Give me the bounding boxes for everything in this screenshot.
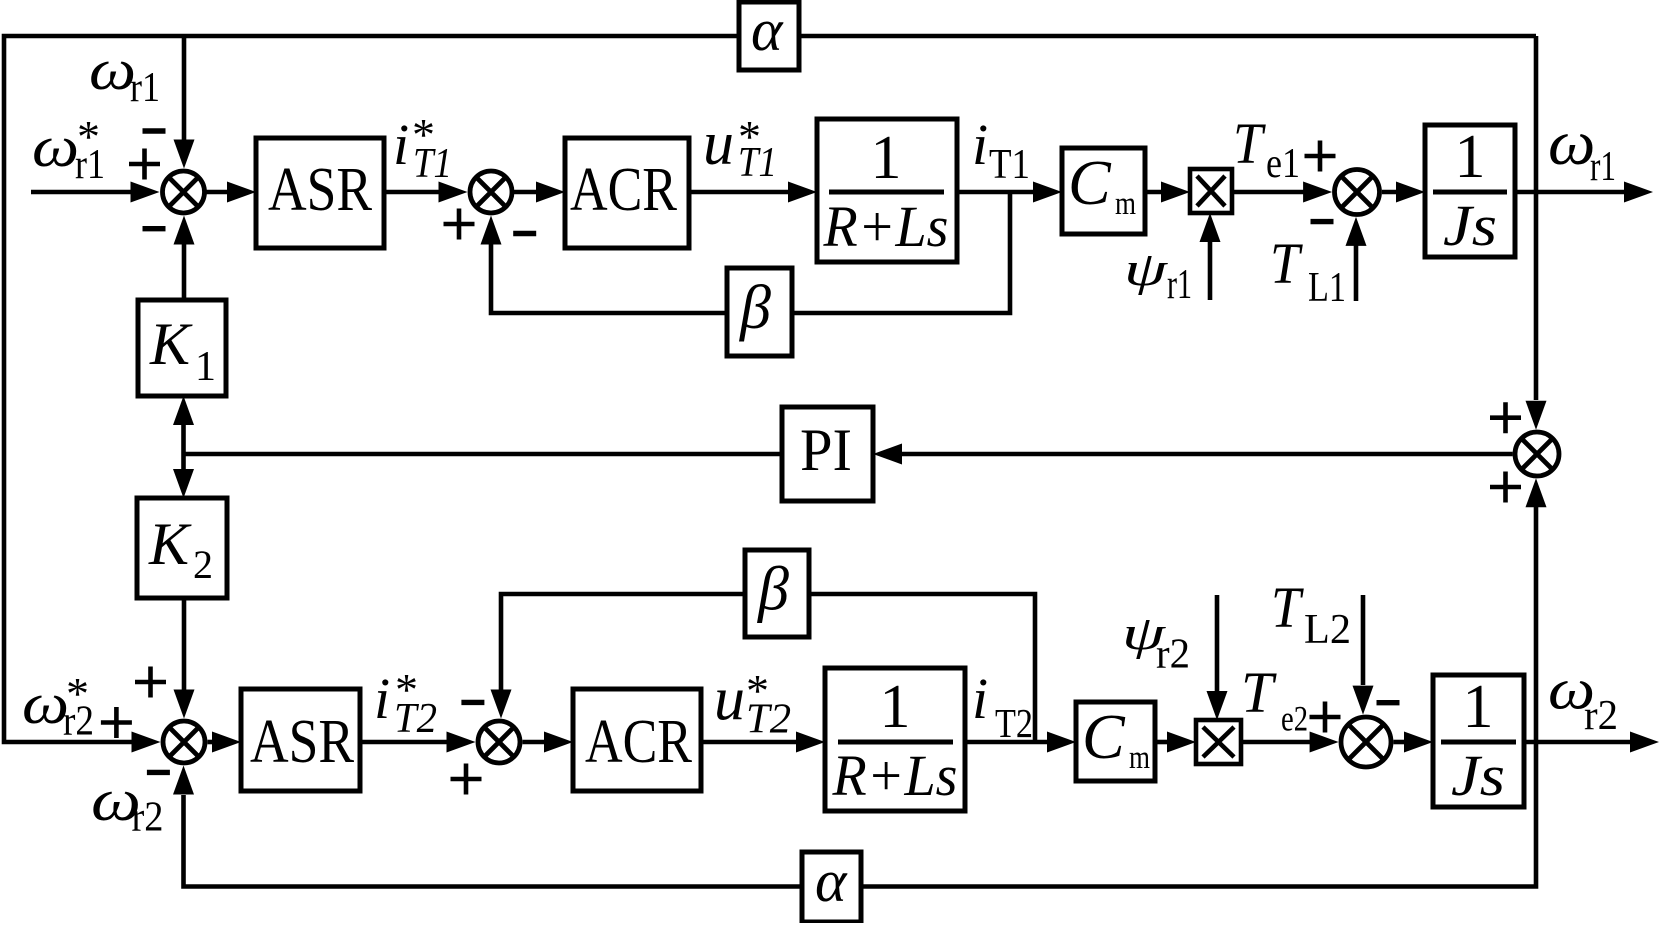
- summing junction C3 (torque 1): [1335, 170, 1380, 215]
- sign plus left of C1: [129, 149, 160, 180]
- arrow: K2 down into C5: [174, 690, 195, 719]
- summing junction C4 (PI input): [1515, 432, 1559, 476]
- arrow: ACR2 to RL2: [796, 732, 825, 753]
- svg-text:L2: L2: [1304, 607, 1351, 653]
- svg-text:r2: r2: [132, 795, 164, 841]
- svg-text:R+Ls: R+Ls: [823, 194, 949, 259]
- sign minus right of C2 arrow: [513, 231, 536, 236]
- svg-text:1: 1: [871, 124, 902, 192]
- svg-text:1: 1: [195, 344, 216, 390]
- svg-text:ω: ω: [1548, 108, 1595, 178]
- summing junction C1 (speed loop 1): [163, 171, 205, 213]
- svg-text:r1: r1: [75, 142, 105, 188]
- wire: C6 to ACR2: [523, 740, 548, 745]
- wire: right vertical C4 bottom from row2 junction: [1534, 507, 1539, 742]
- arrow: down into C4 top: [1526, 401, 1547, 430]
- wire: psi_r2 input down: [1215, 595, 1220, 691]
- svg-text:m: m: [1129, 740, 1150, 776]
- svg-text:R+Ls: R+Ls: [832, 743, 958, 808]
- sign plus lower left C5: [101, 707, 132, 738]
- arrow: beta1 into C2 bottom: [481, 216, 502, 245]
- summing junction C6 (current loop 2): [478, 721, 520, 763]
- multiplier (top): [1190, 169, 1232, 213]
- arrow: input to C1: [131, 182, 160, 203]
- svg-text:β: β: [739, 274, 771, 342]
- arrow: psi_r2 into mult2: [1207, 691, 1228, 720]
- svg-text:T: T: [1271, 576, 1305, 641]
- wire: Js1 to omega_r1 output: [1515, 190, 1626, 195]
- svg-text:T1: T1: [413, 141, 452, 187]
- arrow: C1 to ASR1: [227, 182, 256, 203]
- svg-text:e2: e2: [1281, 699, 1308, 739]
- svg-text:T: T: [1233, 112, 1267, 177]
- arrow: mult1 to C3: [1303, 182, 1332, 203]
- svg-text:u: u: [714, 666, 745, 734]
- wire: mult2 to C7: [1241, 740, 1312, 745]
- block 1/Js (top): [1425, 125, 1515, 257]
- svg-text:PI: PI: [800, 417, 852, 483]
- wire: Cm1 to mult1: [1145, 190, 1163, 195]
- wire: ACR1 to RL1: [689, 190, 790, 195]
- svg-text:T: T: [1241, 660, 1277, 725]
- svg-text:r1: r1: [130, 65, 160, 111]
- svg-text:T1: T1: [989, 142, 1030, 188]
- multiplier (bottom): [1196, 720, 1241, 764]
- sign plus upper C4: [1490, 402, 1521, 433]
- arrow: ASR2 to C6: [447, 732, 476, 753]
- wire: column up into K1: [181, 424, 186, 454]
- wire: T_L2 input down: [1361, 595, 1366, 685]
- svg-text:i: i: [374, 666, 390, 731]
- arrow: Cm2 to mult2: [1167, 732, 1196, 753]
- wire: Cm2 to mult2: [1155, 740, 1170, 745]
- svg-text:T1: T1: [738, 140, 777, 186]
- wire: mult1 to C3: [1232, 190, 1305, 195]
- block ACR (bottom): [573, 689, 701, 791]
- sign plus upper left C5: [135, 667, 166, 698]
- wire: psi_r1 input up: [1208, 240, 1213, 300]
- block Cm (top): [1062, 148, 1145, 234]
- svg-text:r1: r1: [1590, 144, 1616, 190]
- svg-text:C: C: [1082, 701, 1126, 772]
- arrow: C5 to ASR2: [212, 732, 241, 753]
- wire: top alpha feedback line: [4, 36, 1536, 742]
- sign minus below C3: [1311, 219, 1334, 224]
- svg-text:ω: ω: [32, 114, 79, 179]
- sign minus right of TL2 arrow C7: [1377, 700, 1400, 705]
- svg-text:T2: T2: [746, 697, 791, 743]
- arrow: ASR1 to C2: [439, 182, 468, 203]
- wire: RL2 to Cm2: [965, 740, 1050, 745]
- wire: omega*_r1 input: [31, 190, 133, 195]
- arrow: up into K1 bottom: [173, 396, 194, 425]
- wire: bottom alpha feedback line: [184, 742, 1537, 887]
- wire: beta1 feedback: [491, 192, 1010, 313]
- block Cm (bottom): [1076, 702, 1155, 781]
- block 1/Js (bottom): [1433, 675, 1524, 807]
- svg-text:r1: r1: [1167, 262, 1192, 308]
- svg-text:u: u: [703, 110, 734, 178]
- sign minus below C5: [147, 770, 170, 775]
- arrow: up into C4 bottom: [1526, 478, 1547, 507]
- svg-text:T2: T2: [995, 700, 1033, 746]
- wire: ASR1 to C2: [384, 190, 442, 195]
- svg-text:α: α: [815, 848, 848, 914]
- svg-text:i: i: [972, 666, 988, 731]
- svg-text:ACR: ACR: [570, 156, 678, 224]
- block K1: [138, 300, 226, 396]
- block PI: [782, 407, 873, 501]
- block ASR (bottom): [241, 689, 360, 791]
- wire: beta2 feedback: [501, 594, 1035, 742]
- svg-text:ASR: ASR: [268, 156, 373, 224]
- svg-text:e1: e1: [1266, 141, 1300, 187]
- arrow: mult2 to C7: [1310, 732, 1339, 753]
- block K2: [137, 498, 227, 598]
- arrow: C3 to Js1: [1396, 182, 1425, 203]
- svg-text:1: 1: [880, 673, 911, 741]
- block beta (top): [727, 268, 792, 356]
- arrow: beta2 down into C6: [491, 690, 512, 719]
- arrow: T_L2 into C7: [1353, 686, 1374, 715]
- wire: column down into K2: [181, 454, 186, 470]
- svg-text:ASR: ASR: [250, 708, 355, 776]
- svg-text:r2: r2: [1156, 632, 1190, 678]
- wire: PI to left column: [184, 452, 783, 457]
- svg-text:i: i: [972, 112, 988, 177]
- block alpha (bottom): [802, 852, 861, 922]
- sign plus below-left C2: [444, 209, 475, 240]
- svg-text:1: 1: [1455, 123, 1486, 191]
- sign minus above C1: [143, 128, 166, 133]
- sign plus before C7: [1310, 702, 1341, 733]
- wire: RL1 to Cm1: [957, 190, 1036, 195]
- arrow: into PI right side: [873, 444, 902, 465]
- svg-text:C: C: [1068, 147, 1112, 218]
- arrow: omega_r1 down into C1: [174, 140, 195, 169]
- arrow: ACR1 to RL1: [788, 182, 817, 203]
- svg-text:1: 1: [1463, 673, 1494, 741]
- arrow: T_L1 into C3: [1346, 217, 1367, 246]
- sign plus before C3: [1305, 141, 1336, 172]
- wire: T_L1 input up: [1354, 245, 1359, 301]
- wire: K1 up to C1: [182, 244, 187, 300]
- block ACR (top): [565, 138, 689, 248]
- wire: ASR2 to C6: [360, 740, 450, 745]
- svg-text:β: β: [757, 556, 789, 624]
- wire: C7 to Js2: [1393, 740, 1407, 745]
- arrow: bottom feedback up into C5: [173, 766, 194, 795]
- svg-text:i: i: [393, 112, 409, 177]
- wire: C5 to ASR2: [208, 740, 216, 745]
- wire: C4 to PI: [901, 452, 1513, 457]
- arrow: RL1 to Cm1: [1033, 182, 1062, 203]
- sign plus below C6: [451, 764, 482, 795]
- block 1/(R+Ls) (bottom): [825, 668, 965, 811]
- arrow: K1 into C1 bottom: [174, 216, 195, 245]
- svg-text:T: T: [1270, 232, 1304, 297]
- block 1/(R+Ls) (top): [817, 119, 957, 262]
- svg-text:ψ: ψ: [1124, 242, 1168, 295]
- wire: C2 to ACR1: [514, 190, 538, 195]
- arrow: psi_r1 into mult1: [1200, 213, 1221, 242]
- arrow: omega_r1 output: [1624, 182, 1653, 203]
- arrow: C2 to ACR1: [536, 182, 565, 203]
- svg-text:T2: T2: [394, 696, 437, 742]
- wire: right vertical down to C4: [1534, 36, 1539, 400]
- sign minus below C1: [143, 226, 166, 231]
- svg-text:r2: r2: [1584, 693, 1618, 739]
- summing junction C7 (torque 2): [1341, 717, 1391, 767]
- svg-text:Js: Js: [1443, 193, 1497, 258]
- block beta (bottom): [745, 550, 809, 637]
- svg-text:Js: Js: [1451, 743, 1505, 808]
- arrow: alpha input to C5 left: [132, 732, 161, 753]
- svg-text:K: K: [149, 311, 193, 377]
- block alpha (top): [739, 2, 799, 70]
- svg-text:m: m: [1115, 186, 1136, 222]
- block ASR (top): [256, 138, 384, 248]
- svg-text:2: 2: [193, 542, 213, 587]
- wire: C1 to ASR1: [206, 190, 230, 195]
- arrow: C7 to Js2: [1404, 732, 1433, 753]
- summing junction C5 (speed loop 2): [163, 721, 205, 763]
- wire: omega_r1 feedback down into C1: [182, 36, 187, 142]
- arrow: RL2 to Cm2: [1047, 732, 1076, 753]
- arrow: Cm1 to mult1: [1161, 182, 1190, 203]
- wire: K2 down to C5: [182, 598, 187, 690]
- svg-text:K: K: [148, 511, 192, 577]
- arrow: C6 to ACR2: [544, 732, 573, 753]
- summing junction C2 (current loop 1): [470, 171, 512, 213]
- svg-text:r2: r2: [63, 699, 94, 745]
- sign minus left of beta2 arrow C6: [461, 700, 484, 705]
- wire: C3 to Js1: [1382, 190, 1398, 195]
- arrow: down into K2 top: [173, 469, 194, 498]
- svg-text:ACR: ACR: [585, 708, 693, 776]
- svg-text:α: α: [751, 0, 784, 63]
- sign plus lower C4: [1490, 472, 1521, 503]
- svg-text:L1: L1: [1308, 265, 1346, 311]
- arrow: omega_r2 output: [1630, 732, 1659, 753]
- wire: Js2 to omega_r2 output: [1524, 740, 1632, 745]
- wire: ACR2 to RL2: [701, 740, 799, 745]
